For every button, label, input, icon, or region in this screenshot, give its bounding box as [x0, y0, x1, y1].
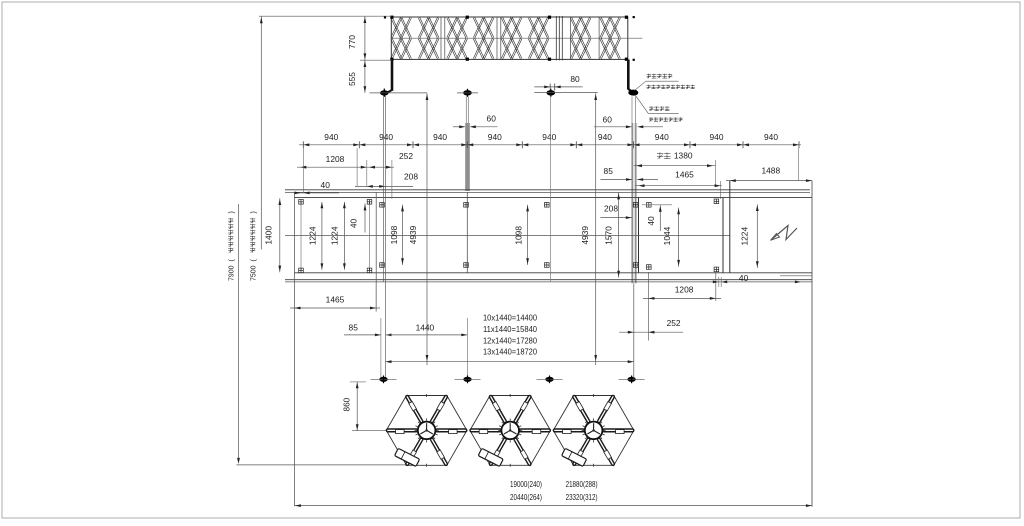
svg-text:940: 940 [324, 132, 338, 142]
svg-text:7900: 7900 [229, 265, 236, 281]
svg-text:208: 208 [404, 172, 418, 182]
svg-text:770: 770 [347, 35, 357, 49]
svg-text:): ) [251, 211, 258, 213]
svg-text:252: 252 [399, 151, 413, 161]
svg-text:1224: 1224 [740, 227, 750, 246]
svg-text:1440: 1440 [416, 322, 435, 332]
svg-text:1224: 1224 [307, 226, 317, 245]
svg-text:940: 940 [655, 132, 669, 142]
svg-text:1098: 1098 [514, 226, 524, 245]
svg-text:555: 555 [347, 72, 357, 86]
svg-text:1044: 1044 [662, 226, 672, 245]
svg-text:40: 40 [646, 216, 656, 226]
svg-text:940: 940 [764, 132, 778, 142]
svg-text:20440(264): 20440(264) [510, 493, 542, 502]
svg-text:60: 60 [487, 114, 497, 124]
svg-text:1098: 1098 [389, 225, 399, 244]
svg-text:1380: 1380 [674, 150, 693, 160]
svg-text:21880(288): 21880(288) [566, 480, 598, 489]
svg-text:): ) [229, 211, 236, 213]
svg-text:940: 940 [379, 132, 393, 142]
svg-text:12x1440=17280: 12x1440=17280 [483, 336, 538, 345]
svg-text:940: 940 [433, 132, 447, 142]
svg-text:940: 940 [598, 132, 612, 142]
svg-text:13x1440=18720: 13x1440=18720 [483, 348, 538, 357]
svg-text:80: 80 [570, 74, 580, 84]
svg-text:940: 940 [488, 132, 502, 142]
svg-text:23320(312): 23320(312) [566, 493, 598, 502]
svg-text:940: 940 [710, 132, 724, 142]
svg-text:19000(240): 19000(240) [510, 480, 542, 489]
svg-text:40: 40 [739, 273, 749, 283]
svg-text:11x1440=15840: 11x1440=15840 [483, 325, 538, 334]
svg-text:1208: 1208 [675, 285, 694, 295]
svg-text:40: 40 [321, 180, 331, 190]
svg-text:1208: 1208 [326, 154, 345, 164]
svg-text:10x1440=14400: 10x1440=14400 [483, 314, 538, 323]
svg-text:860: 860 [343, 397, 352, 411]
svg-text:85: 85 [349, 322, 359, 332]
svg-text:1488: 1488 [761, 165, 780, 175]
svg-text:4939: 4939 [408, 225, 418, 244]
svg-text:1224: 1224 [329, 226, 339, 245]
svg-text:1465: 1465 [675, 170, 694, 180]
svg-text:60: 60 [603, 114, 613, 124]
svg-text:252: 252 [667, 318, 681, 328]
svg-text:85: 85 [604, 166, 614, 176]
svg-text:40: 40 [349, 219, 359, 229]
svg-text:7500: 7500 [251, 265, 258, 281]
svg-text:1400: 1400 [264, 226, 274, 245]
svg-text:1465: 1465 [326, 295, 345, 305]
svg-text:940: 940 [542, 132, 556, 142]
svg-text:4939: 4939 [580, 226, 590, 245]
svg-text:1570: 1570 [603, 226, 613, 245]
svg-text:208: 208 [604, 204, 618, 214]
